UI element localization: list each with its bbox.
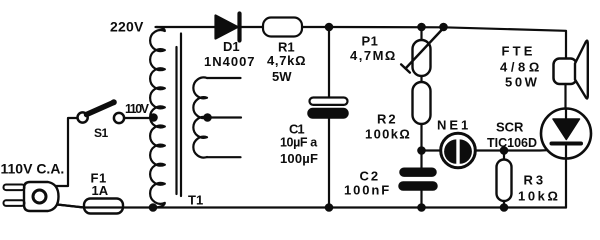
secondary center tap lead (207, 116, 241, 118)
svg-text:4,7kΩ: 4,7kΩ (267, 53, 306, 68)
transformer T1 secondary winding (193, 77, 207, 157)
svg-text:R3: R3 (524, 173, 547, 188)
loudspeaker FTE (554, 41, 588, 109)
svg-text:SCR: SCR (496, 120, 524, 135)
secondary bottom lead (207, 156, 241, 158)
svg-text:C2: C2 (360, 169, 381, 184)
junction node C1 bottom (325, 203, 334, 212)
resistor R2 (413, 82, 431, 151)
svg-text:5W: 5W (272, 69, 292, 84)
svg-text:S1: S1 (94, 126, 109, 140)
wire plug to fuse (57, 205, 84, 208)
capacitor C2 (399, 151, 437, 208)
plug 110V C.A. (4, 182, 59, 211)
svg-text:110V: 110V (125, 102, 150, 116)
svg-text:NE1: NE1 (437, 118, 471, 133)
svg-text:100µF: 100µF (280, 151, 318, 166)
transformer T1 primary winding (150, 27, 165, 208)
svg-text:50W: 50W (505, 75, 540, 90)
junction node top P1 (417, 23, 426, 32)
transformer core (177, 34, 182, 197)
svg-text:220V: 220V (110, 19, 144, 35)
neon lamp NE1 (422, 133, 505, 168)
fuse F1 (84, 199, 123, 214)
junction node top P1 wiper (439, 23, 448, 32)
svg-text:C1: C1 (289, 122, 304, 137)
junction node NE1 left (417, 146, 426, 155)
junction node R3 top (500, 146, 509, 155)
svg-text:100nF: 100nF (344, 183, 391, 198)
capacitor C1 (308, 27, 348, 208)
svg-text:1N4007: 1N4007 (204, 54, 256, 69)
svg-text:1A: 1A (92, 183, 109, 198)
svg-text:T1: T1 (188, 193, 203, 208)
svg-text:TIC106D: TIC106D (487, 136, 537, 150)
svg-text:110V C.A.: 110V C.A. (1, 161, 65, 177)
wire NE1 / R3 to SCR gate (504, 149, 548, 152)
diode D1 (216, 14, 240, 41)
resistor R3 (497, 151, 512, 208)
svg-text:10µF a: 10µF a (280, 136, 318, 150)
svg-text:10kΩ: 10kΩ (518, 189, 561, 204)
junction node R3 bottom (500, 203, 509, 212)
potentiometer P1 (401, 27, 443, 82)
wire bottom rail (57, 205, 566, 208)
svg-text:FTE: FTE (502, 44, 536, 59)
svg-text:P1: P1 (362, 34, 379, 49)
svg-text:4/8Ω: 4/8Ω (500, 60, 543, 75)
resistor R1 (263, 18, 302, 37)
junction node C2 bottom (417, 203, 426, 212)
junction node 110V tap (149, 113, 158, 122)
wire plug to switch (56, 118, 77, 186)
junction node top C1 (325, 23, 334, 32)
svg-text:100kΩ: 100kΩ (365, 127, 411, 142)
junction node T1 bottom (149, 203, 158, 212)
wire top rail (156, 27, 567, 59)
secondary top lead (207, 77, 241, 79)
svg-text:R2: R2 (377, 112, 398, 127)
svg-text:4,7MΩ: 4,7MΩ (350, 48, 397, 63)
svg-text:D1: D1 (223, 39, 240, 54)
wire switch to 110V tap (124, 117, 153, 119)
junction node secondary tap (203, 113, 212, 122)
switch S1 (78, 99, 125, 123)
SCR TIC106D (541, 109, 591, 208)
